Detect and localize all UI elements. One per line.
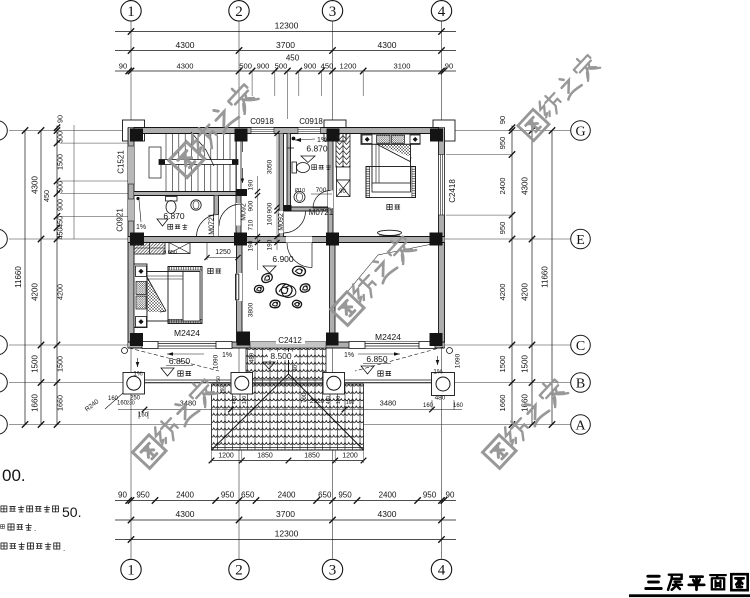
svg-text:500: 500 bbox=[56, 181, 65, 193]
bed1 foot frame bbox=[168, 267, 202, 324]
svg-text:3100: 3100 bbox=[394, 62, 411, 71]
bed2 foot frame bbox=[366, 167, 416, 198]
svg-text:160: 160 bbox=[267, 214, 274, 225]
top exterior wall (axis G) bbox=[128, 128, 445, 134]
svg-text:1500: 1500 bbox=[31, 355, 40, 373]
stair wellhole outline bbox=[149, 147, 161, 178]
door jamb sill bbox=[349, 342, 365, 349]
right balcony label bbox=[378, 371, 383, 376]
canopy ridge vertical bbox=[288, 348, 290, 374]
bed1 mattress bbox=[147, 272, 200, 322]
column nub axis3/H2 bbox=[328, 203, 333, 211]
canopy roof tiles upper block bbox=[246, 348, 326, 384]
svg-text:90: 90 bbox=[118, 491, 127, 500]
bathroom1 sink bbox=[191, 200, 201, 210]
svg-text:710: 710 bbox=[248, 219, 255, 230]
svg-text:6.850: 6.850 bbox=[366, 354, 388, 364]
svg-text:1500: 1500 bbox=[56, 154, 65, 170]
svg-text:C2412: C2412 bbox=[278, 336, 302, 345]
left exterior wall (axis 1) bbox=[128, 128, 134, 349]
door jamb sill bbox=[419, 342, 435, 349]
bathroom2 toilet bbox=[292, 162, 297, 173]
svg-text:2: 2 bbox=[235, 4, 243, 20]
svg-text:1%: 1% bbox=[433, 369, 443, 376]
svg-text:2400: 2400 bbox=[278, 491, 296, 500]
column outline square axis 4/G bbox=[433, 120, 455, 141]
svg-text:3700: 3700 bbox=[276, 40, 295, 50]
right balcony down arrow 1% bbox=[437, 356, 439, 365]
axis circle 3 bottom bbox=[322, 559, 342, 579]
column (black) 12 bbox=[430, 333, 443, 346]
svg-text:190: 190 bbox=[267, 239, 274, 250]
svg-text:950: 950 bbox=[136, 491, 150, 500]
svg-text:M092: M092 bbox=[241, 203, 248, 221]
bedroom2 table bbox=[378, 230, 402, 235]
courtyard plants and rocks bbox=[260, 272, 273, 284]
svg-text:450: 450 bbox=[321, 62, 334, 71]
column (black) 5 bbox=[130, 233, 144, 246]
middle dimension column x277 bbox=[276, 134, 278, 251]
svg-text:M2424: M2424 bbox=[174, 328, 200, 338]
column (black) 11 bbox=[326, 333, 339, 346]
bed1 nightstand bottom bbox=[136, 317, 147, 328]
top dimension row 4300/3700/4300 bbox=[115, 50, 456, 52]
axis circle C right bbox=[571, 335, 591, 355]
canopy hip ridge left bbox=[212, 374, 289, 450]
svg-text:160: 160 bbox=[346, 400, 355, 406]
middle wall (axis E) bbox=[128, 237, 445, 243]
right balcony drain circle bbox=[447, 348, 453, 354]
bedroom2 label bbox=[387, 204, 392, 209]
column (black) 3 bbox=[327, 129, 340, 142]
svg-text:3800: 3800 bbox=[248, 302, 255, 317]
column outline square axis 1/G bbox=[123, 120, 145, 141]
bottom dimension detailed row bbox=[115, 500, 456, 502]
bathroom1 slope arrow bbox=[139, 200, 141, 222]
column (black) 8 bbox=[430, 233, 443, 246]
balcony column pad 1 bbox=[123, 373, 145, 395]
axis circle B right bbox=[571, 373, 591, 393]
wall axis3 upper (bedroom partition) bbox=[328, 134, 333, 237]
label C2412 bbox=[276, 337, 305, 345]
svg-text:4300: 4300 bbox=[176, 509, 195, 519]
horizontal axis line C bbox=[9, 344, 570, 346]
column (black) 7 bbox=[326, 233, 339, 246]
balcony column pad 2 bbox=[231, 373, 253, 395]
svg-text:1850: 1850 bbox=[257, 453, 273, 460]
bathroom2 bottom wall H2 bbox=[284, 207, 329, 211]
vertical axis line 2 bbox=[238, 22, 240, 559]
bedroom1 door leaf bracket bbox=[235, 274, 237, 300]
bed1 pillow2 bbox=[136, 296, 146, 309]
svg-text:1: 1 bbox=[127, 563, 135, 579]
stair bottom wall H1 bbox=[134, 192, 247, 196]
door arc M0721 ensuite bbox=[313, 191, 331, 209]
svg-text:1660: 1660 bbox=[498, 395, 507, 412]
svg-text:950: 950 bbox=[423, 491, 437, 500]
svg-text:1: 1 bbox=[127, 4, 135, 20]
svg-text:90: 90 bbox=[498, 116, 507, 124]
window C0918 right bbox=[298, 128, 321, 134]
svg-text:B: B bbox=[576, 376, 585, 391]
axis circle C left partial bbox=[0, 335, 7, 355]
svg-text:3480: 3480 bbox=[380, 399, 397, 408]
svg-text:450: 450 bbox=[56, 216, 65, 228]
svg-text:160: 160 bbox=[108, 396, 119, 402]
bottom exterior wall (axis C) bbox=[128, 342, 445, 348]
door jamb sill bbox=[142, 342, 158, 349]
svg-text:8.500: 8.500 bbox=[270, 351, 292, 361]
svg-text:4300: 4300 bbox=[378, 40, 397, 50]
balcony edge line inner bbox=[124, 382, 455, 384]
right dimension line 11660 bbox=[551, 131, 553, 425]
svg-text:50: 50 bbox=[216, 376, 222, 382]
svg-text:100: 100 bbox=[336, 396, 342, 405]
bed1 blanket fold bbox=[147, 277, 165, 312]
wall V4 axis2 corridor bbox=[236, 192, 241, 237]
watermark tuzhizhijia 5 bbox=[483, 376, 569, 468]
svg-text:100: 100 bbox=[242, 396, 248, 405]
svg-text:2920: 2920 bbox=[310, 398, 325, 405]
stair right side wall (white) bbox=[236, 134, 241, 192]
svg-text:950: 950 bbox=[221, 491, 235, 500]
canopy eave double line bbox=[212, 447, 364, 449]
corridor wall V1 bbox=[279, 134, 284, 237]
left window extension lines bbox=[73, 125, 75, 239]
canopy hip ridge right bbox=[289, 374, 364, 450]
svg-text:3: 3 bbox=[329, 4, 337, 20]
bed1 pillow1 bbox=[136, 282, 146, 295]
door gap M2424 right in C wall bbox=[365, 342, 419, 348]
axis circle 2 top bbox=[229, 1, 249, 21]
svg-text:1500: 1500 bbox=[521, 355, 530, 373]
svg-text:450: 450 bbox=[232, 396, 238, 405]
svg-text:Ø10: Ø10 bbox=[295, 188, 305, 194]
column (black) 4 bbox=[430, 129, 443, 142]
bed2 mattress bbox=[372, 144, 411, 186]
vertical axis line 4 bbox=[441, 22, 443, 559]
horizontal axis line G bbox=[9, 130, 570, 132]
svg-text:1%: 1% bbox=[133, 371, 143, 378]
svg-text:.: . bbox=[34, 524, 36, 533]
svg-text:1%: 1% bbox=[344, 352, 354, 359]
svg-text:160: 160 bbox=[138, 413, 149, 419]
svg-text:1%: 1% bbox=[222, 352, 232, 359]
svg-text:3700: 3700 bbox=[276, 509, 295, 519]
bathroom2 sink bbox=[294, 192, 305, 203]
svg-text:480: 480 bbox=[435, 395, 446, 402]
window C0918 left bbox=[251, 128, 274, 134]
svg-text:11660: 11660 bbox=[541, 266, 550, 288]
vertical axis line 1 bbox=[130, 22, 132, 559]
svg-text:4300: 4300 bbox=[176, 40, 195, 50]
svg-text:3: 3 bbox=[329, 563, 337, 579]
middle dimension column x257 bbox=[257, 176, 259, 270]
axis circle G left partial bbox=[0, 121, 7, 141]
door gap M0721a in V3 bbox=[214, 214, 219, 237]
svg-text:700: 700 bbox=[302, 392, 308, 403]
svg-text:6.900: 6.900 bbox=[272, 254, 294, 264]
svg-text:1660: 1660 bbox=[56, 395, 65, 411]
axis circle 2 bottom bbox=[229, 559, 249, 579]
svg-text:M2424: M2424 bbox=[375, 332, 401, 342]
svg-text:C1521: C1521 bbox=[117, 150, 126, 174]
watermark tuzhizhijia 2 bbox=[518, 52, 601, 141]
right dimension line outer detail bbox=[531, 131, 533, 425]
svg-text:R240: R240 bbox=[84, 398, 101, 413]
svg-text:2400: 2400 bbox=[498, 178, 507, 195]
window C0921 bbox=[128, 199, 134, 221]
svg-text:2400: 2400 bbox=[176, 491, 194, 500]
door arc M0921b hall bbox=[284, 211, 306, 233]
svg-text:C0918: C0918 bbox=[299, 117, 323, 126]
svg-text:1200: 1200 bbox=[340, 62, 357, 71]
bathroom1 level triangle bbox=[157, 219, 168, 226]
svg-text:90: 90 bbox=[339, 189, 346, 195]
svg-text:C0918: C0918 bbox=[250, 117, 274, 126]
left balcony label bbox=[178, 371, 183, 376]
axis circle 1 top bbox=[121, 1, 141, 21]
column (black) 2 bbox=[235, 129, 248, 142]
courtyard spiral bbox=[282, 284, 296, 298]
left balcony down arrow 1% bbox=[137, 358, 139, 367]
svg-text:4300: 4300 bbox=[521, 177, 530, 195]
svg-text:1500: 1500 bbox=[56, 356, 65, 372]
window C1521 bbox=[128, 146, 134, 184]
bedroom1 label bbox=[208, 268, 213, 273]
svg-text:1500: 1500 bbox=[498, 356, 507, 373]
svg-text:6.870: 6.870 bbox=[163, 211, 185, 221]
bathroom2 label bbox=[312, 165, 317, 170]
axis circle A left partial bbox=[0, 415, 7, 435]
column outline square axis 3/G bbox=[324, 120, 346, 141]
door arc M0921a corridor bbox=[219, 204, 241, 226]
right exterior wall (axis 4) bbox=[439, 128, 445, 349]
stair down arrow bbox=[242, 168, 244, 183]
svg-text:1200: 1200 bbox=[342, 453, 358, 460]
svg-text:40: 40 bbox=[293, 365, 299, 371]
axis circle E left partial bbox=[0, 229, 7, 249]
svg-text:E: E bbox=[576, 233, 585, 248]
svg-text:160: 160 bbox=[453, 403, 464, 409]
svg-text:4: 4 bbox=[438, 563, 446, 579]
door jamb sill bbox=[216, 342, 232, 349]
column (black) 10 bbox=[237, 332, 251, 346]
window C2412 in C wall bbox=[250, 342, 326, 348]
svg-text:4300: 4300 bbox=[177, 62, 194, 71]
svg-text:900: 900 bbox=[267, 202, 274, 213]
top dimension detailed row bbox=[115, 70, 456, 72]
bathroom1 toilet bbox=[166, 197, 178, 202]
svg-text:1660: 1660 bbox=[31, 394, 40, 412]
svg-text:0.050: 0.050 bbox=[163, 250, 177, 256]
column (black) 6 bbox=[234, 233, 247, 246]
stair up arrow bbox=[242, 137, 244, 152]
svg-text:M0721: M0721 bbox=[209, 213, 216, 235]
column (black) 14 bbox=[284, 205, 292, 211]
bed2 nightstand left bbox=[362, 135, 372, 144]
svg-text:700: 700 bbox=[316, 187, 327, 194]
right dimension line inner detail bbox=[511, 126, 513, 425]
svg-text:500: 500 bbox=[275, 62, 288, 71]
svg-text:G: G bbox=[575, 124, 585, 139]
svg-text:6.870: 6.870 bbox=[306, 144, 328, 154]
svg-text:C2418: C2418 bbox=[448, 179, 457, 203]
left balcony dashed roof line bbox=[129, 348, 219, 371]
bathroom2 slope arrow bbox=[295, 139, 315, 140]
bottom dimension row 4300/3700/4300 bbox=[115, 519, 456, 521]
svg-text:900: 900 bbox=[257, 62, 270, 71]
watermark tuzhizhijia 3 bbox=[331, 233, 417, 325]
axis circle G right bbox=[571, 121, 591, 141]
svg-text:900: 900 bbox=[304, 62, 317, 71]
svg-text:480: 480 bbox=[250, 352, 256, 363]
column (black) 9 bbox=[130, 333, 143, 346]
door arc M0721a bathroom1 bbox=[197, 215, 219, 237]
left balcony drain circle bbox=[122, 348, 128, 354]
svg-text:4200: 4200 bbox=[31, 283, 40, 301]
stair treads bbox=[165, 134, 167, 160]
left dimension line outer detail bbox=[40, 131, 42, 425]
right balcony slope arrow bbox=[358, 353, 400, 355]
balcony column pad 4 bbox=[432, 373, 455, 396]
door gap M0921b in V1 bbox=[279, 211, 284, 233]
right balcony dashed roof line bbox=[355, 347, 443, 371]
note line 1 (CJK small) with 50. bbox=[1, 506, 7, 512]
svg-text:450: 450 bbox=[326, 396, 332, 405]
svg-text:650: 650 bbox=[241, 491, 255, 500]
wall axis3 lower (courtyard right) bbox=[330, 243, 336, 343]
note line 3 construction bbox=[1, 543, 7, 549]
bottom dimension line 12300 bbox=[115, 539, 456, 541]
window C2418 bbox=[439, 155, 445, 216]
axis circle 4 top bbox=[431, 1, 451, 21]
canopy level 8.500 bbox=[268, 352, 294, 361]
svg-text:500: 500 bbox=[239, 62, 252, 71]
closet hatched left bbox=[134, 243, 165, 255]
svg-text:4300: 4300 bbox=[31, 176, 40, 194]
bed2 headboard bbox=[361, 134, 420, 144]
svg-text:500: 500 bbox=[56, 131, 65, 143]
canopy roof tiles lower block bbox=[212, 384, 364, 450]
bathroom2 level triangle bbox=[301, 156, 315, 163]
door gap M2424 left in C wall bbox=[158, 342, 216, 348]
note line 2 rain pipe bbox=[1, 525, 5, 529]
svg-text:190: 190 bbox=[248, 179, 255, 190]
wardrobe top-right room bbox=[336, 134, 350, 168]
door gap in E wall hall bbox=[286, 237, 312, 243]
left dimension line 11660 bbox=[24, 131, 26, 425]
svg-text:90: 90 bbox=[119, 62, 127, 71]
bathroom2 left wall V2 bbox=[287, 134, 291, 212]
svg-text:50.: 50. bbox=[62, 504, 81, 520]
balcony dimension row 3480 bbox=[118, 409, 462, 411]
svg-text:160: 160 bbox=[220, 386, 226, 395]
svg-text:90: 90 bbox=[56, 115, 65, 123]
svg-text:450: 450 bbox=[42, 190, 51, 202]
title third floor plan with underline bbox=[645, 576, 661, 588]
svg-text:4200: 4200 bbox=[521, 283, 530, 301]
canopy bottom dimension row bbox=[212, 460, 364, 462]
svg-text:M0721: M0721 bbox=[309, 208, 334, 217]
svg-text:C: C bbox=[576, 339, 585, 354]
svg-text:4200: 4200 bbox=[498, 284, 507, 301]
svg-text:950: 950 bbox=[338, 491, 352, 500]
horizontal axis line E bbox=[9, 238, 570, 240]
svg-text:950: 950 bbox=[498, 137, 507, 150]
svg-text:1090: 1090 bbox=[213, 354, 220, 369]
svg-text:11660: 11660 bbox=[14, 266, 23, 288]
svg-text:4200: 4200 bbox=[56, 284, 65, 300]
door gap M0921a in V4 bbox=[236, 203, 241, 226]
svg-text:A: A bbox=[575, 418, 586, 433]
axis circle 3 top bbox=[322, 1, 342, 21]
svg-text:6.850: 6.850 bbox=[169, 356, 191, 366]
bed1 nightstand top bbox=[136, 266, 147, 277]
svg-text:1850: 1850 bbox=[304, 453, 320, 460]
svg-text:1200: 1200 bbox=[218, 453, 234, 460]
door gap M0721 in axis3 wall bbox=[328, 191, 333, 209]
bathroom1 label bbox=[168, 224, 173, 229]
svg-text:00.: 00. bbox=[2, 466, 26, 485]
svg-text:12300: 12300 bbox=[275, 21, 299, 31]
left dimension line inner detail bbox=[56, 126, 58, 425]
axis circle E right bbox=[571, 229, 591, 249]
room3 ceiling slope lines bbox=[334, 255, 378, 308]
balcony door M2424 right thin lines bbox=[365, 343, 419, 345]
svg-text:4300: 4300 bbox=[378, 509, 397, 519]
bed1 headboard bbox=[134, 264, 147, 328]
horizontal axis line B bbox=[9, 382, 570, 384]
balcony column pad 3 bbox=[323, 373, 345, 395]
balcony door M2424 left thin lines bbox=[158, 343, 216, 345]
svg-text:450: 450 bbox=[286, 54, 300, 63]
svg-text:1660: 1660 bbox=[521, 394, 530, 412]
watermark tuzhizhijia 4 bbox=[133, 376, 219, 468]
stair break line bbox=[191, 132, 206, 150]
column (black) 1 bbox=[130, 129, 143, 142]
bed2 pillow2 bbox=[392, 135, 405, 143]
svg-text:.: . bbox=[63, 544, 65, 553]
bathroom2 fixture mark bbox=[287, 147, 294, 149]
svg-text:3050: 3050 bbox=[267, 159, 274, 174]
bed2 nightstand right bbox=[410, 135, 420, 144]
closet X box bbox=[169, 243, 190, 254]
svg-text:90: 90 bbox=[445, 62, 453, 71]
svg-text:12300: 12300 bbox=[275, 529, 299, 539]
svg-text:2400: 2400 bbox=[379, 491, 397, 500]
svg-text:230: 230 bbox=[126, 401, 135, 407]
stair handrail bar bbox=[159, 160, 238, 165]
watermark tuzhizhijia 1 bbox=[169, 81, 259, 178]
svg-text:1250: 1250 bbox=[215, 249, 231, 256]
R240 leader bbox=[105, 393, 123, 409]
axis circle B left partial bbox=[0, 373, 7, 393]
svg-text:650: 650 bbox=[318, 491, 332, 500]
svg-text:1%: 1% bbox=[136, 224, 146, 231]
left balcony level triangle bbox=[161, 368, 174, 376]
courtyard level triangle bbox=[263, 266, 276, 273]
bathroom1 right wall V3 bbox=[214, 196, 219, 237]
horizontal axis line A bbox=[9, 424, 570, 426]
svg-text:190: 190 bbox=[248, 240, 255, 251]
balcony edge line outer bbox=[124, 379, 455, 381]
svg-text:450: 450 bbox=[56, 228, 65, 240]
extension line center window bbox=[286, 96, 288, 119]
axis circle A right bbox=[571, 415, 591, 435]
canopy level triangle bbox=[263, 362, 275, 369]
left balcony slope arrow bbox=[167, 353, 204, 355]
